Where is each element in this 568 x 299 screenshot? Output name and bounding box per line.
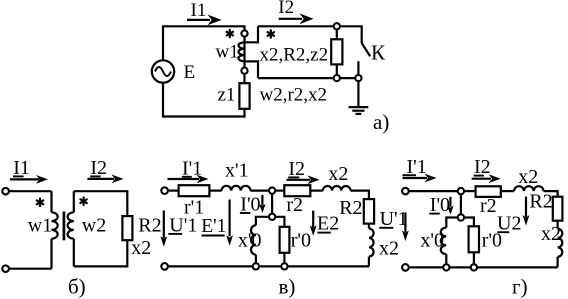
svg-text:r2: r2 <box>480 195 497 217</box>
label I2 (fig g) <box>474 156 491 178</box>
svg-text:E2: E2 <box>317 213 339 235</box>
wire b top-left <box>9 190 52 192</box>
label U'1 (fig v) <box>168 215 197 237</box>
svg-text:R2: R2 <box>339 197 362 219</box>
label I2 (fig v) <box>288 158 305 180</box>
svg-text:w1: w1 <box>28 215 52 237</box>
label I1 (fig b) <box>13 157 30 179</box>
wire primary bottom (z1 to E) <box>163 83 245 117</box>
label I'0 (fig g) <box>429 194 450 216</box>
svg-text:E: E <box>184 62 196 83</box>
terminal circle g bottom-left <box>402 264 409 271</box>
arrow E2 (fig v) <box>310 211 317 236</box>
terminal circle g top-left <box>402 188 409 195</box>
arrow I'0 (fig v) <box>259 195 265 213</box>
polarity asterisk w1 <box>227 30 233 37</box>
label E'1 (fig v) <box>201 216 226 237</box>
inductor x2 right (fig v) <box>369 224 374 267</box>
svg-text:r'0: r'0 <box>482 229 502 251</box>
inductor x2 (fig g) <box>514 186 543 191</box>
switch contact circle <box>355 75 361 81</box>
inductor x'1 <box>222 186 251 191</box>
wire g top right corner <box>544 191 558 197</box>
svg-text:б): б) <box>68 275 86 299</box>
svg-text:x2: x2 <box>131 237 151 259</box>
arrow I2 (fig b) <box>87 175 123 184</box>
resistor R2 (fig g) <box>553 197 563 221</box>
svg-text:R2: R2 <box>138 214 161 236</box>
wire secondary top <box>258 26 362 43</box>
terminal circle v top-left <box>161 187 168 194</box>
terminal circle v bottom-left <box>161 263 168 270</box>
svg-text:в): в) <box>279 275 296 299</box>
node circle v bottom 1 <box>253 263 259 269</box>
svg-text:r2: r2 <box>286 194 303 216</box>
wire v top 3 <box>250 190 269 192</box>
arrow I1 (fig b) <box>10 175 48 184</box>
terminal circle load top <box>334 23 340 29</box>
svg-text:x'0: x'0 <box>420 229 444 251</box>
polarity asterisk w2 <box>268 30 274 37</box>
core line <box>63 212 66 241</box>
svg-text:г): г) <box>512 274 528 298</box>
arrow U2 (fig g) <box>523 197 530 226</box>
label U'1 right (fig v) <box>379 208 407 230</box>
arrow I2 (fig a) <box>279 13 314 24</box>
label E2 (fig v) <box>317 213 339 235</box>
wire g top 2 <box>464 190 476 192</box>
svg-text:x2: x2 <box>328 163 348 185</box>
terminal circle w1 bottom <box>241 68 247 74</box>
svg-text:x2,R2,z2: x2,R2,z2 <box>260 45 329 66</box>
svg-text:x'0: x'0 <box>238 229 262 251</box>
wire b bottom-left <box>9 268 52 270</box>
arrow I2 (fig g) <box>472 174 501 183</box>
svg-text:x2: x2 <box>379 237 399 259</box>
resistor r'0 (fig v) <box>280 227 290 263</box>
arrow U'1 (fig v) <box>160 211 167 247</box>
wire v bottom <box>165 265 369 267</box>
label I2 (fig b) <box>90 157 107 179</box>
resistor r2 (fig v) <box>284 185 310 196</box>
wire g node1-node2 <box>460 194 462 214</box>
arrow E'1 (fig v) <box>226 200 233 246</box>
label U2 (fig g) <box>497 213 521 235</box>
wire g top 3 <box>501 190 514 192</box>
svg-text:x'1: x'1 <box>225 160 249 182</box>
source E <box>152 60 174 82</box>
svg-text:x2: x2 <box>541 223 561 245</box>
wire g top 1 <box>409 190 458 192</box>
svg-text:I2: I2 <box>278 0 294 18</box>
label I'1 (fig g) <box>403 156 427 178</box>
label I'0 (fig v) <box>240 194 261 216</box>
svg-text:r'0: r'0 <box>291 229 311 251</box>
svg-text:R2: R2 <box>529 191 552 213</box>
arrow I'0 (fig g) <box>447 197 453 215</box>
inductor x'0 (fig v) <box>251 225 256 263</box>
arrow U'1 right (fig v) <box>402 213 409 242</box>
svg-text:w2: w2 <box>82 215 106 237</box>
secondary loop (fig b) <box>74 191 128 266</box>
wire v top 4 <box>275 190 284 192</box>
svg-text:I1: I1 <box>191 0 207 21</box>
winding w1 coil <box>238 37 244 68</box>
shunt stubs (fig g) <box>446 218 474 228</box>
arrow I'1 (fig g) <box>403 174 437 183</box>
terminal circle load bottom <box>334 75 340 81</box>
wire secondary bottom <box>258 77 355 79</box>
arrow I2 (fig v) <box>287 175 320 184</box>
switch K lower contact <box>357 61 359 75</box>
terminal circle b bottom <box>2 265 9 272</box>
svg-text:w1: w1 <box>216 42 239 63</box>
resistor r2 (fig g) <box>476 186 501 197</box>
svg-text:r'1: r'1 <box>184 197 204 219</box>
inductor x2 right (fig g) <box>558 221 563 268</box>
arrow I'1 (fig v) <box>168 175 209 184</box>
wire primary top (E to w1) <box>163 26 245 60</box>
wire node1-node2 (fig v) <box>271 194 273 214</box>
terminal circle w1 top <box>241 30 247 36</box>
ground symbol <box>349 81 369 114</box>
resistor r'1 <box>179 185 210 196</box>
resistor r'0 (fig g) <box>469 226 479 264</box>
node circle g bottom 1 <box>443 264 449 270</box>
node circle v top <box>269 187 275 193</box>
label I'1 (fig v) <box>182 157 202 179</box>
polarity asterisk w1 (fig b) <box>37 199 43 206</box>
impedance z1 <box>239 83 249 109</box>
load resistor (fig a) <box>331 29 342 75</box>
inductor x'0 (fig g) <box>441 228 447 265</box>
wire v top 1 <box>168 190 179 192</box>
wire v top 5 <box>310 190 323 192</box>
wire w1 to z1 <box>243 74 245 83</box>
resistor R2 (fig v) <box>364 199 374 224</box>
wire v top 2 <box>209 190 221 192</box>
winding w2 (fig b) <box>68 191 74 266</box>
svg-text:а): а) <box>373 110 389 134</box>
winding w2 connection stubs <box>245 26 259 78</box>
node circle v bottom 2 <box>281 263 287 269</box>
terminal circle b top <box>2 188 9 195</box>
wire v top right corner <box>351 191 369 200</box>
winding w1 (fig b) <box>52 191 58 269</box>
resistor R2 (fig b) <box>122 216 132 240</box>
switch K blade <box>362 43 371 56</box>
wire g bottom <box>409 266 558 268</box>
svg-text:w2,r2,x2: w2,r2,x2 <box>260 84 328 105</box>
shunt stubs (fig v) <box>256 217 285 227</box>
node circle g bottom 2 <box>471 264 477 270</box>
svg-text:z1: z1 <box>218 85 236 106</box>
node circle g top <box>458 188 464 194</box>
svg-text:E'1: E'1 <box>201 216 226 237</box>
svg-text:x2: x2 <box>518 166 538 188</box>
arrow I1 (fig a) <box>187 15 222 26</box>
svg-text:К: К <box>371 41 386 65</box>
node circle g middle <box>458 214 464 220</box>
polarity asterisk w2 (fig b) <box>80 198 86 205</box>
inductor x2 (fig v) <box>323 186 351 191</box>
node circle v middle <box>269 214 275 220</box>
